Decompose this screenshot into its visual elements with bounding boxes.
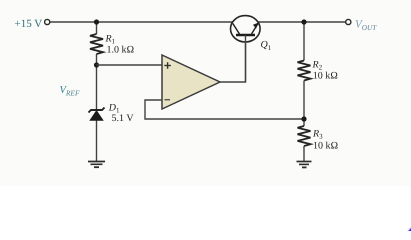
ground (right, below R3) xyxy=(297,162,312,168)
svg-text:10 kΩ: 10 kΩ xyxy=(313,140,339,151)
resistor R1 xyxy=(90,34,103,54)
base bar xyxy=(236,34,255,37)
node B junction dot (R1 / D1 / op-amp + input) xyxy=(94,62,99,67)
node C junction dot (Vout rail / R2) xyxy=(301,19,306,24)
terminal Vout (open circle) xyxy=(346,19,351,24)
resistor R2 xyxy=(298,61,311,81)
node A junction dot (R1 top, +15V rail) xyxy=(94,19,99,24)
stray blue corner mark bottom right xyxy=(408,228,411,231)
wire top rail from +15V terminal to Vout terminal xyxy=(50,21,346,23)
transistor Q1 xyxy=(231,16,261,82)
op-amp U1 xyxy=(162,55,220,109)
wire R1 branch vertical (top rail to node A) xyxy=(96,22,98,34)
collector diagonal (to +15V rail) xyxy=(233,24,240,35)
wire feedback: inverting input to R2/R3 divider node xyxy=(145,100,304,119)
terminal +15V (open circle) xyxy=(45,19,50,24)
wire zener anode to ground xyxy=(96,120,98,162)
wire R3 bottom to ground xyxy=(303,146,305,162)
ground (left, below D1) xyxy=(88,162,105,168)
base wire inside circle down to output wire xyxy=(245,35,247,82)
resistor R3 xyxy=(298,126,311,146)
zener diode D1 xyxy=(89,108,105,121)
svg-text:5.1 V: 5.1 V xyxy=(112,113,135,124)
emitter diagonal with arrow (to Vout rail) xyxy=(252,24,259,35)
wire R2 bottom to divider node xyxy=(303,81,305,127)
node D junction dot (R2 / R3 / feedback) xyxy=(301,116,306,121)
svg-text:10 kΩ: 10 kΩ xyxy=(313,70,339,81)
wire node B to op-amp noninverting input xyxy=(97,64,163,66)
wire op-amp output to transistor base xyxy=(220,41,246,82)
wire Vout branch vertical: rail to R2 xyxy=(303,22,305,61)
svg-text:+15 V: +15 V xyxy=(15,18,43,30)
svg-text:1.0 kΩ: 1.0 kΩ xyxy=(107,45,135,56)
wire node A to zener cathode xyxy=(96,65,98,110)
